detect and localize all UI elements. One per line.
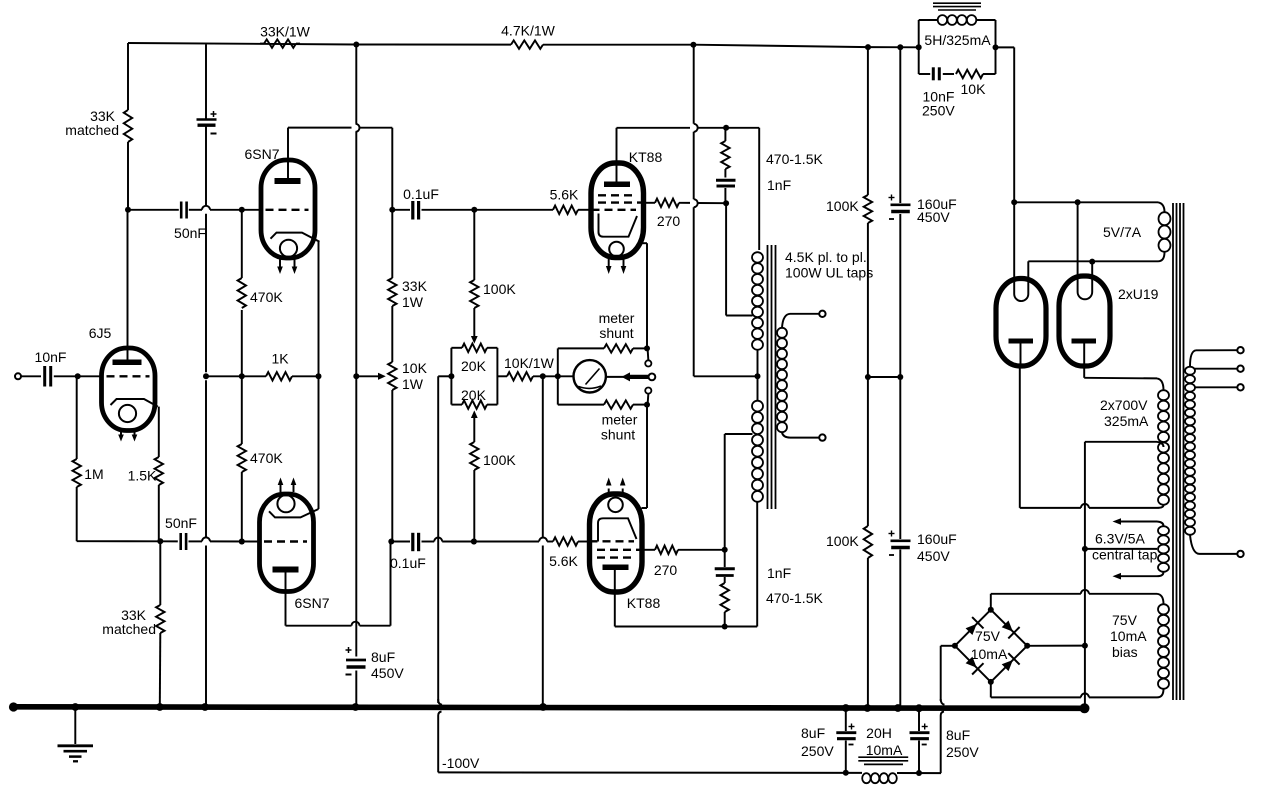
- KT88 upper plate: [604, 128, 630, 187]
- svg-text:-100V: -100V: [442, 755, 480, 771]
- resistor 1K: [266, 372, 292, 380]
- svg-text:450V: 450V: [917, 548, 950, 564]
- svg-text:1K: 1K: [271, 351, 289, 367]
- wire meter shunt branch (upper): [558, 348, 604, 376]
- wire 6.3V top lead: [1113, 518, 1158, 525]
- svg-text:1M: 1M: [84, 466, 103, 482]
- svg-text:4.5K pl. to pl.: 4.5K pl. to pl.: [785, 249, 867, 265]
- pentode KT88 (upper) envelope: [591, 163, 644, 258]
- terminal speaker (upper): [819, 311, 825, 317]
- wire bridge minus to -100V: [941, 646, 955, 773]
- resistor 100K (lower): [470, 410, 478, 544]
- wire bias riser to -100V: [438, 699, 442, 772]
- label 6.3V/5A central tap: [1092, 531, 1158, 563]
- U19 right plate: [1072, 339, 1158, 379]
- svg-text:10mA: 10mA: [971, 646, 1008, 662]
- wire filter ladder right: [899, 47, 901, 708]
- wire bleeder ladder left: [867, 47, 869, 707]
- triode 6SN7 (upper) envelope: [261, 160, 315, 258]
- label 470-1.5K (upper): [766, 151, 823, 167]
- label 160uF 450V (lower): [917, 531, 957, 564]
- wire bias to pot box: [438, 376, 451, 703]
- wire 6.3V center tap: [1085, 548, 1157, 550]
- 6SN7 upper cathode: [271, 233, 320, 242]
- svg-text:10mA: 10mA: [866, 742, 903, 758]
- wire mains tap 2: [1195, 368, 1237, 370]
- transformer OPT primary lower: [752, 401, 763, 502]
- svg-text:75V: 75V: [975, 628, 1001, 644]
- switch contact (lower): [645, 388, 651, 394]
- pot wiper arrow 10K/1W: [356, 373, 386, 380]
- terminal mains 4: [1237, 551, 1243, 557]
- svg-text:20H: 20H: [866, 725, 892, 741]
- 6J5 plate: [113, 210, 142, 365]
- wire x=356 to 8uF: [353, 45, 360, 711]
- label -100V: [442, 755, 480, 771]
- inductor 20H choke: [858, 757, 908, 783]
- label 4.7K/1W: [501, 23, 555, 39]
- resistor 5.6K (lower): [553, 537, 590, 545]
- label 5H/325mA: [924, 32, 991, 48]
- capacitor 160uF 450V (lower): [889, 531, 911, 556]
- resistor 100K (bleeder upper): [864, 195, 872, 223]
- wire screen to UL tap (upper): [679, 200, 753, 315]
- capacitor 0.1uF (upper): [392, 201, 553, 220]
- filter block 5H outline: [919, 20, 996, 74]
- wire 6.3V bottom lead: [1113, 573, 1158, 580]
- 6J5 heater pins: [118, 428, 137, 442]
- svg-text:2xU19: 2xU19: [1118, 286, 1159, 302]
- pot box 20K/20K: [448, 348, 497, 405]
- svg-text:250V: 250V: [946, 744, 979, 760]
- rectifier U19 (left) envelope: [996, 279, 1046, 367]
- svg-text:2x700V: 2x700V: [1100, 397, 1148, 413]
- resistor 33K 1W: [388, 278, 396, 306]
- wire KT88 upper plate to OPT: [617, 125, 760, 250]
- wire HV center tap: [1085, 442, 1164, 447]
- label 270 (lower): [654, 562, 678, 578]
- 6SN7 upper plate: [275, 128, 301, 184]
- svg-text:75V: 75V: [1112, 612, 1138, 628]
- KT88 upper heater circle: [609, 242, 624, 257]
- wire HV bottom to U19 left: [1020, 504, 1157, 508]
- transformer 5V/7A winding: [1159, 212, 1171, 252]
- label 470-1.5K (lower): [766, 590, 823, 606]
- svg-text:100W UL taps: 100W UL taps: [785, 265, 873, 281]
- KT88 upper beam electrode: [599, 214, 638, 237]
- svg-text:50nF: 50nF: [174, 225, 206, 241]
- inductor 5H/325mA: [933, 3, 981, 25]
- svg-text:33K: 33K: [402, 278, 428, 294]
- 6SN7 lower plate: [273, 567, 299, 626]
- label 33K matched (lower): [102, 607, 156, 637]
- label 2xU19: [1118, 286, 1159, 302]
- transformer bias winding 75V: [1157, 594, 1169, 698]
- svg-text:shunt: shunt: [601, 427, 635, 443]
- svg-text:33K/1W: 33K/1W: [260, 24, 311, 40]
- svg-text:450V: 450V: [917, 209, 950, 225]
- resistor 10K/1W: [507, 372, 533, 380]
- wire B+ to OPT center tap: [694, 45, 761, 380]
- switch wiper arm: [622, 372, 656, 381]
- resistor 33K matched (lower): [156, 541, 164, 707]
- svg-text:250V: 250V: [801, 743, 834, 759]
- svg-text:10K: 10K: [961, 81, 987, 97]
- 6J5 grid: [107, 375, 150, 377]
- terminal mains 1: [1237, 347, 1243, 353]
- svg-text:50nF: 50nF: [165, 515, 197, 531]
- svg-text:470-1.5K: 470-1.5K: [766, 151, 823, 167]
- label 20K (lower): [461, 387, 487, 403]
- wire OPT secondary top terminal: [782, 314, 819, 328]
- label KT88 (lower): [627, 595, 661, 611]
- wire bias AC bottom: [991, 682, 1157, 698]
- resistor 4.7K/1W: [511, 40, 543, 48]
- svg-text:100K: 100K: [826, 533, 859, 549]
- svg-text:matched: matched: [65, 122, 119, 138]
- wire bias AC top: [991, 590, 1157, 610]
- capacitor 0.1uF (lower): [391, 533, 553, 551]
- label 8uF 250V (right): [946, 727, 979, 760]
- svg-text:270: 270: [657, 213, 681, 229]
- resistor 1.5K: [155, 407, 163, 542]
- svg-text:matched: matched: [102, 621, 156, 637]
- svg-text:8uF: 8uF: [946, 727, 970, 743]
- resistor 100K (upper): [470, 210, 478, 344]
- resistor 5.6K (upper): [553, 206, 592, 214]
- label 6SN7 (upper): [244, 146, 279, 162]
- wire shunt upper to KT88 cathode: [633, 243, 650, 360]
- wire meter to switch: [606, 376, 627, 378]
- ground symbol: [58, 709, 94, 761]
- KT88 lower heater pins: [606, 478, 626, 497]
- svg-text:5.6K: 5.6K: [550, 187, 579, 203]
- label meter shunt (lower): [601, 412, 638, 443]
- capacitor 1nF (lower): [715, 550, 735, 583]
- wire 6J5 plate to 6SN7 grid: [128, 206, 262, 213]
- capacitor 10nF (input): [21, 366, 78, 387]
- wire 5V winding top: [1011, 199, 1164, 212]
- 6SN7 lower grid: [264, 540, 307, 542]
- pentode KT88 (lower) envelope: [590, 494, 643, 592]
- wire shunt lower to KT88 cathode: [633, 394, 650, 508]
- U19 left plate: [1009, 339, 1034, 508]
- 6SN7 upper grid: [266, 209, 309, 211]
- label 1K: [271, 351, 289, 367]
- 6SN7 upper heater circle: [280, 240, 297, 257]
- svg-text:10nF: 10nF: [35, 349, 67, 365]
- label 50nF (upper): [174, 225, 206, 241]
- resistor 470-1.5K (upper): [721, 128, 729, 178]
- 6SN7 lower cathode: [269, 509, 319, 517]
- ground bus: [9, 702, 1090, 713]
- wire B+ top rail: [128, 42, 922, 51]
- label 8uF 450V: [371, 649, 404, 681]
- transformer OPT primary upper: [752, 252, 763, 400]
- transformer power core: [1173, 203, 1184, 700]
- node input grid junction: [75, 373, 102, 379]
- svg-text:100K: 100K: [826, 198, 859, 214]
- wire 1K to cathodes: [292, 373, 322, 379]
- transformer 6.3V winding: [1157, 522, 1169, 577]
- wire 6SN7 lower plate line: [286, 542, 391, 626]
- svg-text:1W: 1W: [402, 376, 424, 392]
- label 8uF 250V (left): [801, 725, 834, 759]
- diode D2 (T-R): [1002, 621, 1020, 639]
- label 5.6K (lower): [549, 553, 578, 569]
- svg-text:meter: meter: [602, 412, 638, 428]
- KT88 lower heater circle: [608, 498, 623, 513]
- label 20K (upper): [461, 358, 487, 374]
- capacitor 8uF 450V: [346, 647, 367, 675]
- wire anode load chain: [388, 210, 394, 545]
- svg-text:470K: 470K: [250, 450, 283, 466]
- triode 6J5 envelope: [102, 348, 156, 431]
- svg-text:20K: 20K: [461, 358, 487, 374]
- label 270 (upper): [657, 213, 681, 229]
- label 100K (lower): [483, 452, 516, 468]
- label OPT: [785, 249, 873, 281]
- capacitor 8uF 250V (left): [836, 710, 856, 773]
- label 100K (bleeder lower): [826, 533, 859, 549]
- svg-text:6.3V/5A: 6.3V/5A: [1095, 531, 1145, 547]
- label 10nF: [35, 349, 67, 365]
- svg-text:250V: 250V: [922, 103, 955, 119]
- wire meter shunt branch (lower): [558, 376, 604, 404]
- wire mains tap 3: [1195, 386, 1237, 388]
- diode D3 (L-B): [966, 657, 984, 675]
- terminal mains 2: [1237, 366, 1243, 372]
- label 6SN7 (lower): [294, 595, 329, 611]
- label KT88 (upper): [629, 149, 663, 165]
- transformer OPT secondary: [777, 328, 787, 432]
- capacitor 10nF 250V: [933, 67, 939, 80]
- resistor 270 (upper): [655, 199, 679, 207]
- svg-text:meter: meter: [599, 310, 635, 326]
- svg-text:450V: 450V: [371, 665, 404, 681]
- resistor 470-1.5K (lower): [721, 583, 729, 627]
- wire 5V winding bottom: [1028, 252, 1164, 265]
- terminal speaker (lower): [819, 434, 825, 440]
- svg-text:6J5: 6J5: [89, 325, 112, 341]
- resistor 470K (upper): [238, 278, 246, 308]
- capacitor 8uF 250V (right): [910, 710, 930, 773]
- diode D1 (L-T): [966, 617, 984, 635]
- svg-text:1nF: 1nF: [767, 565, 791, 581]
- capacitor 160uF 450V (upper): [889, 195, 911, 220]
- label 6J5: [89, 325, 112, 341]
- svg-text:0.1uF: 0.1uF: [403, 186, 439, 202]
- wire x=543 to ground: [540, 376, 546, 710]
- wire 1K feedback: [206, 375, 266, 377]
- label 470K (upper): [250, 289, 283, 305]
- rectifier U19 (right) envelope: [1059, 276, 1110, 366]
- bridge rectifier 75V 10mA: [952, 607, 1030, 685]
- KT88 lower plate: [603, 565, 629, 627]
- label 100K (upper): [483, 281, 516, 297]
- potentiometer 20K (upper): [462, 344, 487, 352]
- node 100K upper junction: [471, 207, 477, 213]
- wire pot to meter: [497, 375, 507, 377]
- label 10K 1W: [402, 360, 428, 392]
- label 33K matched (upper): [65, 108, 119, 138]
- svg-text:bias: bias: [1112, 644, 1138, 660]
- KT88 lower grids: [590, 541, 642, 557]
- wire decoupling branch x=206: [202, 45, 209, 711]
- meter M1: [574, 360, 606, 392]
- svg-text:KT88: KT88: [629, 149, 663, 165]
- svg-text:100K: 100K: [483, 281, 516, 297]
- svg-text:1W: 1W: [402, 294, 424, 310]
- diode D4 (B-R): [1002, 653, 1020, 671]
- label 10K/1W: [504, 355, 555, 371]
- resistor 470K (lower): [238, 444, 246, 472]
- 6J5 cathode: [111, 399, 158, 407]
- label 5.6K (upper): [550, 187, 579, 203]
- resistor meter shunt (lower): [604, 400, 633, 408]
- svg-text:8uF: 8uF: [371, 649, 395, 665]
- 6J5 heater circle: [119, 405, 136, 422]
- wire meter node: [533, 373, 574, 379]
- wire KT88 upper screen: [644, 202, 656, 204]
- resistor 10K (damper): [956, 70, 983, 78]
- wire choke output: [993, 44, 1015, 202]
- wire 6SN7 upper plate line: [288, 124, 392, 210]
- capacitor bypass electrolytic (x=206): [197, 111, 217, 134]
- svg-text:4.7K/1W: 4.7K/1W: [501, 23, 555, 39]
- label 1nF (upper): [767, 177, 791, 193]
- U19 left filament: [1014, 202, 1028, 301]
- svg-text:10K/1W: 10K/1W: [504, 355, 555, 371]
- KT88 upper heater pins: [606, 259, 626, 275]
- transformer HV winding 2x700V: [1157, 378, 1169, 508]
- svg-text:270: 270: [654, 562, 678, 578]
- wire mains tap 1: [1196, 349, 1237, 351]
- label 1.5K: [128, 468, 157, 484]
- resistor 33K/1W: [260, 39, 300, 47]
- label 10K (damper): [961, 81, 987, 97]
- svg-text:10mA: 10mA: [1110, 628, 1147, 644]
- svg-text:5.6K: 5.6K: [549, 553, 578, 569]
- KT88 upper grids: [592, 195, 643, 210]
- resistor meter shunt (upper): [604, 344, 633, 352]
- wire screen to UL tap (lower): [722, 434, 753, 553]
- terminal mains 3: [1237, 384, 1243, 390]
- wire ground vertical (HV CT): [1082, 442, 1088, 706]
- svg-text:shunt: shunt: [599, 325, 633, 341]
- capacitor 50nF (lower): [181, 533, 186, 550]
- label 10nF 250V: [922, 89, 955, 119]
- resistor 100K (bleeder lower): [864, 526, 872, 558]
- svg-text:20K: 20K: [461, 387, 487, 403]
- potentiometer 20K (lower): [462, 400, 487, 408]
- wire lower grid line: [77, 537, 260, 544]
- svg-text:10K: 10K: [402, 360, 428, 376]
- label 75V 10mA bias: [1110, 612, 1147, 660]
- label 33K 1W: [402, 278, 428, 310]
- label 100K (bleeder upper): [826, 198, 859, 214]
- label 2x700V 325mA: [1100, 397, 1149, 429]
- svg-text:5V/7A: 5V/7A: [1103, 224, 1142, 240]
- label 160uF 450V (upper): [917, 196, 957, 225]
- capacitor 50nF (upper): [181, 202, 186, 219]
- capacitor 1nF (upper): [716, 180, 736, 203]
- svg-text:0.1uF: 0.1uF: [390, 555, 426, 571]
- label 5V/7A: [1103, 224, 1142, 240]
- label 20H 10mA: [866, 725, 903, 758]
- label 470K (lower): [250, 450, 283, 466]
- terminal input: [15, 373, 21, 379]
- svg-text:6SN7: 6SN7: [244, 146, 279, 162]
- node 0.1uF upper junction: [389, 207, 395, 213]
- wire mains tap 4: [1200, 553, 1238, 555]
- label 1nF (lower): [767, 565, 791, 581]
- KT88 lower beam electrode: [598, 518, 637, 541]
- svg-text:1.5K: 1.5K: [128, 468, 157, 484]
- label 0.1uF (lower): [390, 555, 426, 571]
- resistor R 33K matched (upper): [124, 43, 132, 210]
- label meter shunt (upper): [599, 310, 635, 341]
- label 50nF (lower): [165, 515, 197, 531]
- wire 6SN7 cathode tie: [318, 242, 320, 509]
- label bridge 75V 10mA: [971, 628, 1008, 662]
- svg-text:160uF: 160uF: [917, 531, 957, 547]
- svg-text:470K: 470K: [250, 289, 283, 305]
- svg-text:1nF: 1nF: [767, 177, 791, 193]
- svg-text:325mA: 325mA: [1104, 413, 1149, 429]
- wire ladder connector: [865, 374, 903, 380]
- svg-text:470-1.5K: 470-1.5K: [766, 590, 823, 606]
- transformer OPT core: [768, 245, 776, 509]
- wire -100V rail: [438, 770, 941, 776]
- svg-text:8uF: 8uF: [801, 725, 825, 741]
- wire x=242 divider: [239, 210, 245, 545]
- resistor 270 (lower): [642, 546, 725, 554]
- 6SN7 lower heater circle: [277, 495, 294, 512]
- wire OPT secondary bottom terminal: [782, 433, 819, 438]
- svg-text:KT88: KT88: [627, 595, 661, 611]
- svg-text:6SN7: 6SN7: [294, 595, 329, 611]
- resistor 1M: [73, 376, 81, 541]
- 6SN7 lower heater pins: [278, 478, 297, 493]
- 6SN7 upper heater pins: [277, 260, 297, 275]
- transformer mains winding: [1185, 350, 1200, 554]
- switch contact (upper): [645, 360, 651, 366]
- triode 6SN7 (lower) envelope: [260, 494, 314, 592]
- label 0.1uF (upper): [403, 186, 439, 202]
- label 1M: [84, 466, 103, 482]
- potentiometer 10K 1W: [388, 362, 396, 390]
- U19 right filament: [1078, 202, 1093, 299]
- svg-text:100K: 100K: [483, 452, 516, 468]
- wire bridge plus to ground: [1027, 645, 1085, 647]
- wire OPT primary bottom to KT88 lower plate: [615, 502, 757, 630]
- label 33K/1W: [260, 24, 311, 40]
- svg-text:5H/325mA: 5H/325mA: [924, 32, 991, 48]
- node 6J5 plate junction: [125, 207, 131, 213]
